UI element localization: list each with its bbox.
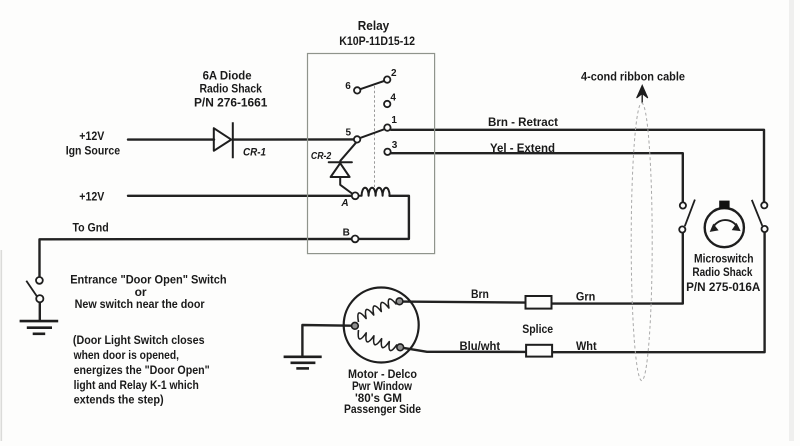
splice block Blu/wht-Wht <box>526 345 552 357</box>
motor terminal bottom-right <box>397 344 404 351</box>
microswitch body <box>705 208 744 247</box>
relay pin 2 <box>384 76 390 82</box>
wire Grn (left microswitch contact to splice) <box>552 233 683 304</box>
svg-text:4-cond ribbon cable: 4-cond ribbon cable <box>581 70 685 84</box>
diode CR-2 <box>329 142 357 193</box>
microswitch contact left-bottom <box>679 226 685 232</box>
ground (motor) <box>284 357 322 369</box>
wire +12V ign source to CR-1 <box>128 138 214 140</box>
motor winding upper <box>358 299 397 322</box>
svg-text:K10P-11D15-12: K10P-11D15-12 <box>339 34 415 48</box>
microswitch lever left <box>685 200 695 227</box>
svg-text:5: 5 <box>346 128 352 139</box>
svg-text:Wht: Wht <box>576 339 597 353</box>
wire Blu/wht (motor to splice) <box>403 348 526 352</box>
relay armature link (dashed) <box>374 86 376 187</box>
ribbon cable arrow <box>637 85 648 102</box>
svg-text:Entrance "Door Open" Switch: Entrance "Door Open" Switch <box>70 273 226 287</box>
svg-text:extends the step): extends the step) <box>74 392 164 406</box>
relay pin A <box>352 192 359 199</box>
wire Yel - Extend (relay pin 3 to left microswitch contact) <box>391 153 683 202</box>
svg-text:Grn: Grn <box>576 289 595 303</box>
svg-text:1: 1 <box>391 115 397 126</box>
svg-text:6: 6 <box>345 81 351 92</box>
svg-text:light and Relay K-1 which: light and Relay K-1 which <box>74 378 199 392</box>
wire +12V to relay pin A <box>128 195 352 197</box>
svg-text:+12V: +12V <box>79 190 104 204</box>
svg-text:4: 4 <box>390 93 396 104</box>
relay pin 6 <box>354 87 360 93</box>
svg-text:Yel - Extend: Yel - Extend <box>490 141 555 155</box>
microswitch contact left-top <box>680 202 686 208</box>
svg-text:P/N 276-1661: P/N 276-1661 <box>194 95 268 109</box>
relay pin 3 <box>384 149 390 155</box>
svg-text:Radio Shack: Radio Shack <box>692 265 752 279</box>
svg-text:Brn: Brn <box>471 287 489 301</box>
svg-text:Blu/wht: Blu/wht <box>460 339 501 353</box>
wire relay coil return to pin B <box>359 196 409 239</box>
svg-text:New switch near the door: New switch near the door <box>75 297 205 311</box>
relay armature 6-2 <box>360 81 384 89</box>
wire To Gnd / door switch to relay pin B <box>40 239 352 277</box>
relay pin B <box>352 236 359 243</box>
svg-text:To Gnd: To Gnd <box>72 221 108 235</box>
svg-text:+12V: +12V <box>79 129 104 143</box>
ribbon cable ellipse <box>631 103 652 381</box>
svg-text:6A Diode: 6A Diode <box>203 69 252 83</box>
motor winding lower <box>358 330 397 351</box>
svg-text:B: B <box>343 228 350 239</box>
splice block Brn-Grn <box>526 296 552 309</box>
microswitch rotation arrow <box>711 220 740 231</box>
svg-text:Ign Source: Ign Source <box>66 143 121 157</box>
svg-text:(Door Light Switch closes: (Door Light Switch closes <box>73 333 205 347</box>
wire Brn (motor to splice) <box>403 302 526 303</box>
relay pin 5 <box>354 136 360 142</box>
svg-text:3: 3 <box>392 140 398 151</box>
ground (door switch) <box>20 321 59 334</box>
motor body <box>344 288 419 363</box>
svg-text:P/N 275-016A: P/N 275-016A <box>686 280 761 294</box>
svg-text:A: A <box>340 198 348 209</box>
svg-text:Relay: Relay <box>358 19 390 33</box>
door switch <box>26 277 43 302</box>
microswitch contact right-top <box>761 202 767 208</box>
svg-text:Radio Shack: Radio Shack <box>199 82 262 96</box>
wire motor to ground <box>302 325 351 356</box>
svg-text:energizes the "Door Open": energizes the "Door Open" <box>74 363 210 377</box>
motor terminal top-right <box>396 298 403 305</box>
svg-text:2: 2 <box>391 68 397 79</box>
relay pin 1 <box>384 124 390 130</box>
wire CR-1 to relay pin 5 <box>233 138 354 141</box>
svg-text:Microswitch: Microswitch <box>694 252 754 266</box>
wire Brn - Retract (relay pin 1 to right microswitch contact) <box>391 130 764 202</box>
svg-text:CR-1: CR-1 <box>243 147 266 159</box>
svg-text:Brn - Retract: Brn - Retract <box>488 115 558 129</box>
wire Wht (splice to right microswitch contact) <box>552 232 764 352</box>
svg-text:Splice: Splice <box>522 322 553 336</box>
relay armature 5-1 <box>360 129 384 138</box>
motor terminal left <box>352 322 359 329</box>
microswitch contact right-bottom <box>762 226 768 232</box>
svg-text:Passenger Side: Passenger Side <box>344 402 421 416</box>
svg-text:CR-2: CR-2 <box>311 151 332 162</box>
wire door switch to ground <box>39 302 41 320</box>
diode CR-1 <box>214 122 233 158</box>
relay coil <box>359 188 390 196</box>
relay pin 4 <box>384 101 390 107</box>
microswitch lever right <box>752 200 763 226</box>
svg-text:when door is opened,: when door is opened, <box>73 348 179 362</box>
relay body outline <box>308 54 435 254</box>
microswitch button <box>719 201 729 210</box>
